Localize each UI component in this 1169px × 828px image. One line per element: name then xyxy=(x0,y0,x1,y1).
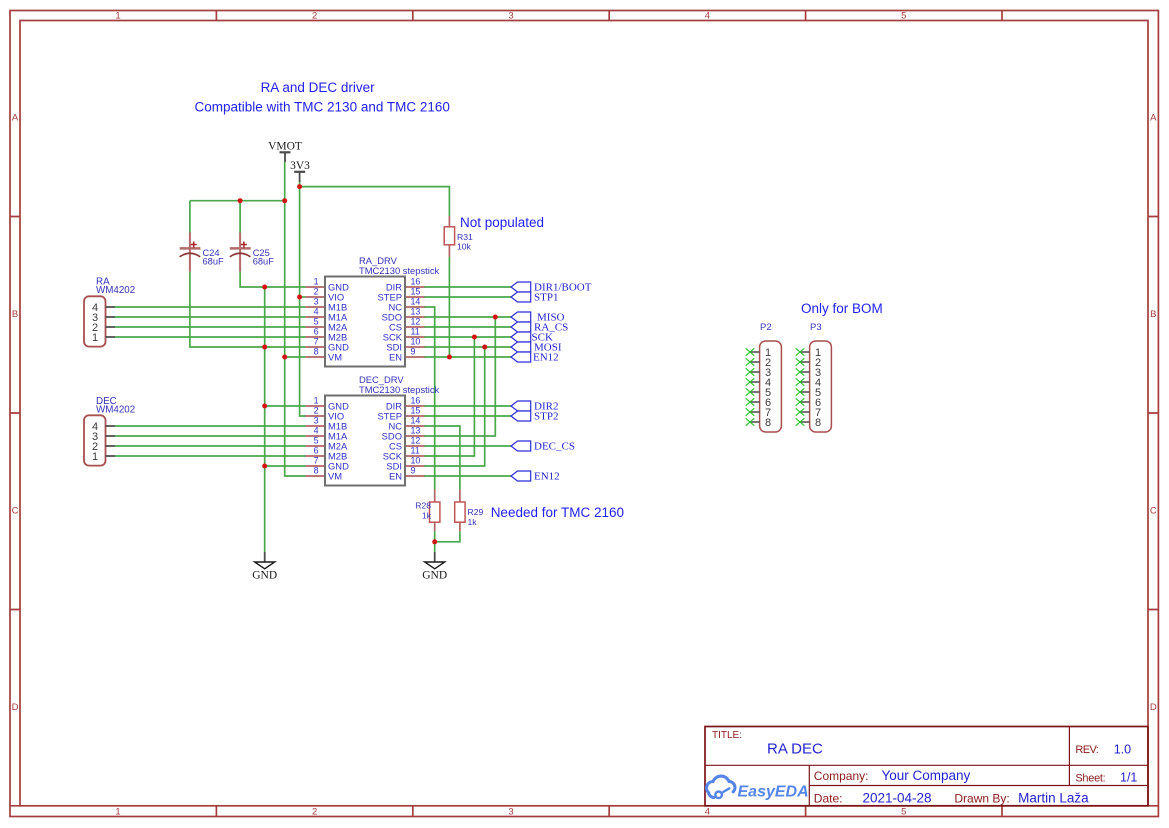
svg-text:1/1: 1/1 xyxy=(1120,770,1137,784)
svg-text:P2: P2 xyxy=(760,322,772,333)
node RA pin1 GND xyxy=(262,285,267,290)
svg-text:Company:: Company: xyxy=(814,769,869,783)
node R28 R29 GND xyxy=(432,539,437,544)
svg-text:3: 3 xyxy=(314,297,319,307)
wire DEC conn pin1 to M2B xyxy=(115,455,306,457)
svg-text:1k: 1k xyxy=(422,510,432,520)
svg-text:TMC2130 stepstick: TMC2130 stepstick xyxy=(359,384,440,395)
svg-text:12: 12 xyxy=(411,436,421,446)
wire C24 top xyxy=(189,201,191,233)
node VMOT rail end xyxy=(282,198,287,203)
wire DEC DIR to DIR2 xyxy=(424,405,511,407)
wire EN to EN12 xyxy=(424,356,511,358)
svg-text:Date:: Date: xyxy=(814,792,843,806)
ground GND left xyxy=(252,552,277,582)
svg-text:10: 10 xyxy=(411,456,421,466)
svg-text:A: A xyxy=(1150,113,1157,124)
svg-text:4: 4 xyxy=(705,806,710,817)
svg-text:10: 10 xyxy=(411,337,421,347)
svg-text:3V3: 3V3 xyxy=(290,160,310,172)
wire DEC CS to DEC_CS xyxy=(424,445,511,447)
node RA pin8 VM xyxy=(282,355,287,360)
connector DEC WM4202 xyxy=(84,415,106,465)
svg-text:Drawn By:: Drawn By: xyxy=(954,792,1009,806)
node DEC pin1 GND xyxy=(262,404,267,409)
svg-text:8: 8 xyxy=(765,417,771,429)
svg-text:GND: GND xyxy=(252,570,277,582)
svg-text:GND: GND xyxy=(422,570,447,582)
wire RA conn pin3 to M1A xyxy=(115,316,306,318)
svg-text:5: 5 xyxy=(901,806,906,817)
connector P2 xyxy=(746,322,782,432)
wire VMOT vertical to DEC pin8 xyxy=(285,162,306,476)
svg-text:3: 3 xyxy=(508,11,513,22)
connector P3 xyxy=(796,322,832,432)
svg-text:Compatible with TMC 2130 and T: Compatible with TMC 2130 and TMC 2160 xyxy=(195,100,450,115)
title block xyxy=(705,727,1148,806)
wire CS to RA_CS xyxy=(424,326,511,328)
svg-text:2021-04-28: 2021-04-28 xyxy=(863,791,932,806)
svg-text:Martin Laža: Martin Laža xyxy=(1018,791,1089,806)
net flag EN12 DEC xyxy=(511,471,560,483)
svg-text:A: A xyxy=(12,113,19,124)
svg-text:Needed for TMC 2160: Needed for TMC 2160 xyxy=(491,505,624,520)
node 3V3 branch xyxy=(297,184,302,189)
net flag SCK xyxy=(511,332,553,344)
svg-text:R29: R29 xyxy=(468,507,484,517)
svg-text:P3: P3 xyxy=(810,322,822,333)
wire C25 top xyxy=(239,201,241,233)
wire DEC EN to EN12 xyxy=(424,475,511,477)
capacitor C25 xyxy=(230,233,274,272)
svg-text:68uF: 68uF xyxy=(203,257,225,267)
node C25 top rail xyxy=(238,198,243,203)
svg-text:1: 1 xyxy=(314,277,319,287)
svg-text:3: 3 xyxy=(508,806,513,817)
wire RA pin8 VM xyxy=(285,356,306,358)
wire VMOT rail xyxy=(190,200,285,202)
svg-text:1: 1 xyxy=(314,396,319,406)
net flag DIR1/BOOT xyxy=(511,282,592,294)
svg-text:RA DEC: RA DEC xyxy=(767,741,823,758)
svg-text:EasyEDA: EasyEDA xyxy=(738,784,809,801)
net flag STP2 xyxy=(511,411,558,423)
svg-text:DEC_CS: DEC_CS xyxy=(534,441,575,453)
svg-text:16: 16 xyxy=(411,396,421,406)
ground GND right xyxy=(422,552,447,582)
capacitor C24 xyxy=(180,233,224,272)
svg-text:9: 9 xyxy=(411,347,416,357)
svg-text:B: B xyxy=(12,309,18,320)
wire SDO to MISO xyxy=(424,316,511,318)
power VMOT xyxy=(268,141,302,163)
chip RA_DRV labels xyxy=(359,255,440,276)
svg-text:13: 13 xyxy=(411,426,421,436)
wire STEP to STP1 xyxy=(424,296,511,298)
svg-text:VM: VM xyxy=(328,471,342,482)
svg-text:2: 2 xyxy=(312,806,317,817)
resistor R31 xyxy=(444,216,473,257)
wire R31 bottom to EN row xyxy=(448,257,450,357)
node RA pin2 VIO xyxy=(297,295,302,300)
power 3V3 xyxy=(290,160,310,182)
svg-text:7: 7 xyxy=(314,456,319,466)
svg-text:Sheet:: Sheet: xyxy=(1075,772,1105,784)
EasyEDA logo xyxy=(706,776,808,800)
svg-text:2: 2 xyxy=(312,11,317,22)
svg-text:5: 5 xyxy=(314,317,319,327)
wire DEC STEP to STP2 xyxy=(424,415,511,417)
node MOSI xyxy=(482,345,487,350)
svg-text:5: 5 xyxy=(314,436,319,446)
net flag EN12 xyxy=(511,352,559,364)
svg-text:1: 1 xyxy=(92,451,98,463)
svg-text:1.0: 1.0 xyxy=(1114,743,1131,757)
chip RA_DRV pin stubs xyxy=(306,287,425,357)
chip DEC_DRV pin stubs xyxy=(306,406,425,476)
svg-text:14: 14 xyxy=(411,416,421,426)
chip DEC_DRV body xyxy=(325,396,405,486)
svg-text:EN: EN xyxy=(389,471,402,482)
chip DEC_DRV pin names xyxy=(328,401,349,482)
svg-text:2: 2 xyxy=(314,287,319,297)
svg-text:7: 7 xyxy=(314,337,319,347)
svg-text:13: 13 xyxy=(411,307,421,317)
wire R28 bottom to GND xyxy=(434,531,436,552)
svg-text:11: 11 xyxy=(411,327,420,337)
wire DEC pin7 GND xyxy=(265,465,306,467)
svg-text:1: 1 xyxy=(115,11,120,22)
svg-text:VM: VM xyxy=(328,352,342,363)
svg-text:STP2: STP2 xyxy=(534,411,558,423)
wire RA conn pin4 to M1B xyxy=(115,306,306,308)
svg-text:8: 8 xyxy=(815,417,821,429)
svg-text:16: 16 xyxy=(411,277,421,287)
wire SCK to flag xyxy=(424,336,511,338)
wire DEC conn pin3 to M1A xyxy=(115,435,306,437)
svg-text:8: 8 xyxy=(314,347,319,357)
svg-text:3: 3 xyxy=(314,416,319,426)
svg-text:1: 1 xyxy=(92,332,98,344)
junction dots xyxy=(238,184,498,544)
svg-text:B: B xyxy=(1150,309,1156,320)
svg-text:4: 4 xyxy=(705,11,710,22)
wire DEC conn pin2 to M2A xyxy=(115,445,306,447)
svg-text:WM4202: WM4202 xyxy=(96,285,135,296)
wire RA conn pin2 to M2A xyxy=(115,326,306,328)
svg-text:4: 4 xyxy=(314,307,319,317)
svg-text:6: 6 xyxy=(314,327,319,337)
wire SDI to MOSI xyxy=(424,346,511,348)
wire C24 bottom to RA pin7 xyxy=(190,272,306,347)
wire MOSI vertical to DEC SDI xyxy=(424,347,485,466)
svg-text:REV:: REV: xyxy=(1075,744,1098,756)
svg-text:15: 15 xyxy=(411,406,421,416)
svg-text:10k: 10k xyxy=(457,242,472,252)
svg-text:EN12: EN12 xyxy=(534,471,560,483)
node MISO xyxy=(493,315,498,320)
wire DEC pin1 GND xyxy=(265,405,306,407)
chip DEC_DRV pin numbers xyxy=(314,396,319,476)
wire DIR to DIR1/BOOT xyxy=(424,286,511,288)
net flag MISO xyxy=(511,312,565,324)
net flag RA_CS xyxy=(511,322,568,334)
net flag DIR2 xyxy=(511,401,558,413)
svg-text:1k: 1k xyxy=(468,517,478,527)
wire DEC conn pin4 to M1B xyxy=(115,425,306,427)
svg-text:1: 1 xyxy=(115,806,120,817)
svg-text:D: D xyxy=(1150,702,1157,713)
wire GND vertical xyxy=(264,287,266,552)
wire SCK vertical to DEC SCK xyxy=(424,337,474,456)
node SCK xyxy=(472,335,477,340)
svg-text:D: D xyxy=(12,702,19,713)
wire R29 bottom to junction xyxy=(435,531,460,542)
svg-text:RA and DEC driver: RA and DEC driver xyxy=(261,80,376,95)
svg-text:15: 15 xyxy=(411,287,421,297)
wire 3V3 vertical to DEC pin2 xyxy=(300,182,306,416)
wire RA conn pin1 to M2B xyxy=(115,336,306,338)
resistor R28 xyxy=(415,490,440,532)
resistor R29 xyxy=(455,490,484,532)
svg-text:8: 8 xyxy=(314,466,319,476)
svg-text:R28: R28 xyxy=(415,501,431,511)
svg-text:STP1: STP1 xyxy=(534,292,558,304)
chip RA_DRV pin numbers xyxy=(314,277,319,357)
svg-text:R31: R31 xyxy=(457,232,473,242)
svg-text:6: 6 xyxy=(314,446,319,456)
svg-text:11: 11 xyxy=(411,446,420,456)
svg-text:TMC2130 stepstick: TMC2130 stepstick xyxy=(359,265,440,276)
svg-text:68uF: 68uF xyxy=(253,257,275,267)
wire DEC NC down to R29 xyxy=(424,426,460,490)
svg-text:Your Company: Your Company xyxy=(882,768,971,783)
chip U1 RA_DRV body xyxy=(325,277,405,367)
net flag DEC_CS xyxy=(511,441,575,453)
svg-text:Not populated: Not populated xyxy=(460,215,544,230)
svg-text:5: 5 xyxy=(901,11,906,22)
connector RA WM4202 xyxy=(84,296,106,346)
svg-text:2: 2 xyxy=(314,406,319,416)
net flag MOSI xyxy=(511,342,562,354)
svg-text:WM4202: WM4202 xyxy=(96,405,135,416)
svg-text:9: 9 xyxy=(411,466,416,476)
chip DEC_DRV labels xyxy=(359,374,440,395)
svg-text:Only for BOM: Only for BOM xyxy=(801,301,883,316)
svg-text:4: 4 xyxy=(314,426,319,436)
chip RA_DRV pin names xyxy=(328,282,349,363)
svg-text:C: C xyxy=(1150,506,1157,517)
svg-text:TITLE:: TITLE: xyxy=(712,730,742,741)
node EN R31 xyxy=(447,355,452,360)
wire RA pin2 VIO xyxy=(300,296,306,298)
wire C25 bottom to RA pin1 xyxy=(240,272,305,287)
svg-text:EN12: EN12 xyxy=(533,352,559,364)
wire 3V3 rail to R31 xyxy=(300,187,450,216)
node DEC pin7 GND xyxy=(262,464,267,469)
svg-text:EN: EN xyxy=(389,352,402,363)
svg-text:14: 14 xyxy=(411,297,421,307)
net flag STP1 xyxy=(511,292,558,304)
svg-text:C: C xyxy=(12,506,19,517)
node RA pin7 GND xyxy=(262,345,267,350)
wire MISO vertical to DEC SDO xyxy=(424,317,495,436)
svg-text:VMOT: VMOT xyxy=(268,141,302,153)
svg-text:12: 12 xyxy=(411,317,421,327)
wire NC down to R28 xyxy=(424,307,435,490)
